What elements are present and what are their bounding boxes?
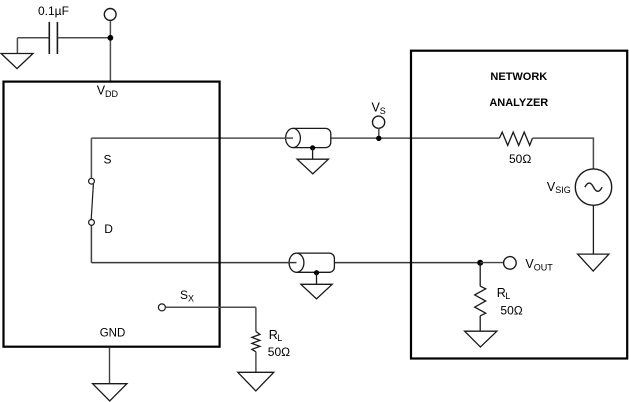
svg-text:SIG: SIG xyxy=(555,185,571,195)
svg-text:S: S xyxy=(104,153,112,167)
junction dot: coax2 shield xyxy=(314,270,319,275)
wire: SX vertical to RL xyxy=(255,307,257,331)
wire: cap to VDD junction xyxy=(58,37,110,39)
wire: RL to ground xyxy=(479,316,481,331)
svg-text:L: L xyxy=(505,291,510,301)
svg-text:50Ω: 50Ω xyxy=(500,303,522,317)
resistor RL (SX load) zigzag xyxy=(252,332,260,352)
ground: DUT GND stem xyxy=(109,348,111,384)
coax cable 1 body xyxy=(293,128,331,147)
terminal: VOUT open circle xyxy=(504,257,517,270)
svg-text:DD: DD xyxy=(105,89,118,99)
svg-text:50Ω: 50Ω xyxy=(268,345,290,359)
wire: stub into coax2 ellipse xyxy=(288,262,297,264)
wire: S branch horizontal (wire1) xyxy=(91,137,499,139)
wire: VSIG to ground xyxy=(592,205,594,254)
switch terminal D circle xyxy=(89,220,95,226)
ground: coax1 stem xyxy=(312,148,314,159)
ground: NA RL triangle xyxy=(465,331,497,347)
terminal: VS open circle xyxy=(373,116,385,128)
resistor 50ohm (NA series) zigzag xyxy=(499,132,532,145)
switch terminal S circle xyxy=(89,178,95,184)
wire: VOUT node to terminal xyxy=(480,262,503,264)
coax cable 2 left ellipse xyxy=(289,253,304,272)
svg-text:X: X xyxy=(188,293,194,303)
svg-text:L: L xyxy=(277,333,282,343)
svg-text:S: S xyxy=(380,106,386,116)
wire: RL to ground xyxy=(255,352,257,373)
resistor RL (NA load) zigzag xyxy=(475,286,486,316)
wire: SX horizontal xyxy=(166,306,256,308)
wire: stub into coax1 ellipse xyxy=(285,137,294,139)
DUT box xyxy=(4,82,220,347)
wire: S vertical drop xyxy=(90,138,92,178)
terminal: SX open circle xyxy=(158,304,165,311)
svg-text:D: D xyxy=(104,222,113,236)
ground: coax1 triangle xyxy=(297,159,328,174)
terminal: VDD open circle xyxy=(104,9,116,21)
wire: VS stem xyxy=(378,128,380,138)
source VSIG sine xyxy=(585,183,602,191)
svg-text:S: S xyxy=(180,288,188,302)
wire: D branch horizontal (wire2) xyxy=(91,262,480,264)
svg-text:ANALYZER: ANALYZER xyxy=(489,97,548,109)
ground: bypass cap ground stem xyxy=(16,38,18,54)
junction dot: VS node xyxy=(376,136,381,141)
ground: bypass cap ground triangle xyxy=(1,54,33,69)
source VSIG circle xyxy=(575,169,611,205)
svg-text:50Ω: 50Ω xyxy=(509,152,531,166)
wire: VDD cap net horizontal xyxy=(17,37,48,39)
junction dot: coax1 shield xyxy=(310,145,315,150)
ground: VSIG triangle xyxy=(578,254,609,271)
svg-text:GND: GND xyxy=(100,327,126,339)
wire: resistor to VSIG corner xyxy=(533,138,594,169)
junction dot: VOUT node xyxy=(477,260,483,266)
ground: coax2 stem xyxy=(316,273,318,285)
ground: coax2 triangle xyxy=(301,284,332,299)
svg-text:NETWORK: NETWORK xyxy=(490,71,547,83)
ground: DUT GND triangle xyxy=(93,384,127,401)
coax cable 1 left ellipse xyxy=(286,128,301,147)
capacitor C1 0.1uF plates xyxy=(49,22,57,54)
wire: VDD terminal stem xyxy=(109,20,111,37)
svg-text:OUT: OUT xyxy=(534,262,554,272)
junction dot: VDD node xyxy=(108,35,114,41)
wire: VOUT node down to RL xyxy=(479,263,481,287)
ground: SX RL ground triangle xyxy=(238,372,274,391)
NETWORK ANALYZER box xyxy=(411,51,627,359)
switch arm S-D xyxy=(91,184,93,220)
coax cable 2 body xyxy=(297,253,335,272)
wire: D drop to wire2 xyxy=(90,225,92,262)
svg-text:0.1µF: 0.1µF xyxy=(38,4,69,18)
wire: VDD junction down to DUT box xyxy=(109,38,111,82)
